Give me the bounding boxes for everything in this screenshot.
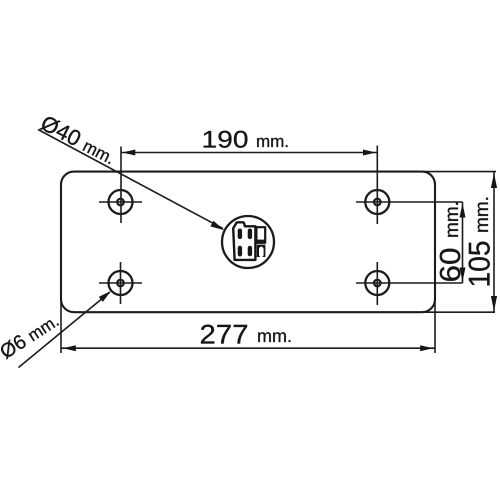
hole bottom-right crosshair [356,282,463,284]
dimension line 190 [121,152,377,154]
label 60 [440,249,461,281]
label mm190 [257,138,287,147]
arrow 60 top [460,204,466,218]
dimension texts (as paths, Liberation Sans) [0,114,490,359]
label O6 [0,313,59,360]
arrow leader d6 [99,291,111,302]
connector plug body [233,222,265,260]
label 190 [204,131,248,148]
hole bottom-left circles [109,271,133,295]
extension line 190 left [120,147,122,224]
arrow 105 bottom [491,296,497,311]
hole top-right crosshair [356,201,463,203]
connector side tab [256,227,265,243]
connector pins and latch [238,229,266,258]
label mm105 [478,198,488,232]
hole top-right circles [365,190,389,214]
connector latch slot [259,247,264,257]
arrow 277 left [63,345,76,351]
arrow 190 left [122,150,135,156]
arrow leader d40 [210,221,224,231]
extension line bottom-left for 277 dim [60,300,62,353]
hole top-left circles [109,190,133,214]
dimension line 277 [61,347,435,349]
arrow 190 right [363,150,376,156]
label O40 [39,114,116,164]
hole top-left crosshair [99,201,142,203]
extension line bottom-right for 105 dim [422,311,495,313]
hole bottom-right circles [365,271,389,295]
label 105 [469,242,490,286]
arrow 277 right [420,345,433,351]
plate outline [61,172,435,313]
arrow 105 top [491,173,497,188]
label mm277 [258,332,290,342]
leader line for diameter 40 [38,130,223,229]
label mm60 [448,203,458,237]
hole bottom-left crosshair [99,282,142,284]
arrow 60 bottom [460,268,466,282]
connector circle [222,216,274,268]
dimension line 105 [493,172,495,312]
leader line for diameter 6 [19,293,110,368]
dimension line 60 [462,202,464,283]
extension line 190 right [376,146,378,225]
dimension arrowheads [63,150,497,352]
extension line bottom-right for 277 dim [434,300,436,353]
label 277 [201,325,247,344]
extension line top-right for 105 dim [422,171,496,173]
